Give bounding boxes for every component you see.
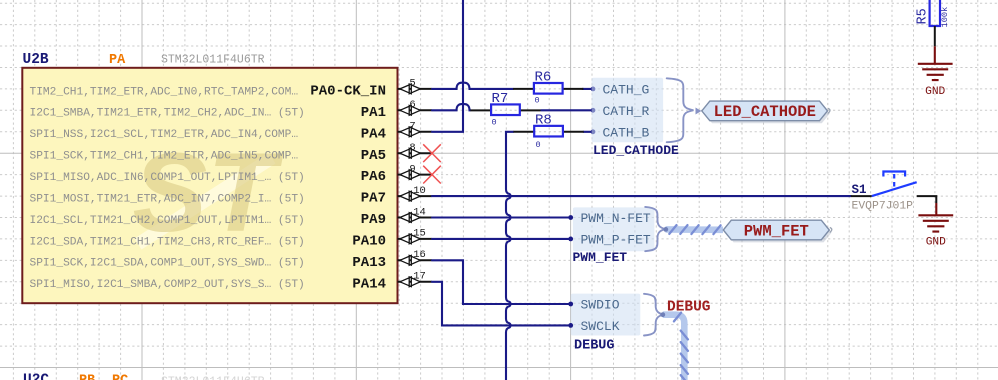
svg-text:10: 10 (413, 185, 426, 197)
svg-text:PA0-CK_IN: PA0-CK_IN (310, 84, 386, 100)
svg-text:R6: R6 (535, 70, 552, 86)
svg-text:6: 6 (409, 99, 415, 111)
resistor R7 (0 ohm) (470, 91, 540, 128)
junction dot (568, 237, 573, 242)
wire R8 net vertical to bottom (hops) (506, 132, 513, 380)
pin 9 (PA6) (30, 163, 433, 185)
svg-text:15: 15 (413, 228, 426, 240)
no-connect X on PA5 (423, 144, 441, 162)
wire R7 to CATH_R (541, 109, 592, 111)
svg-text:PA: PA (109, 53, 126, 68)
svg-text:PWM_FET: PWM_FET (744, 222, 809, 240)
net class area PWM_FET (573, 207, 655, 251)
svg-text:I2C1_SCL,TIM21_CH2,COMP1_OUT,L: I2C1_SCL,TIM21_CH2,COMP1_OUT,LPTIM1… (5T… (30, 215, 305, 227)
svg-text:SPI1_MOSI,TIM21_ETR,ADC_IN7,CO: SPI1_MOSI,TIM21_ETR,ADC_IN7,COMP2_I… (5T… (30, 194, 305, 206)
svg-text:PA14: PA14 (352, 276, 386, 292)
junction dot (568, 215, 573, 220)
svg-text:SPI1_SCK,I2C1_SDA,COMP1_OUT,SY: SPI1_SCK,I2C1_SDA,COMP1_OUT,SYS_SWD… (5T… (30, 258, 305, 270)
svg-text:SPI1_MISO,ADC_IN6,COMP1_OUT,LP: SPI1_MISO,ADC_IN6,COMP1_OUT,LPTIM1_… (5T… (30, 172, 305, 184)
junction dot (591, 87, 596, 92)
svg-text:R5: R5 (916, 8, 931, 24)
pin 5 (PA0-CK_IN) (30, 78, 433, 100)
svg-text:PA13: PA13 (352, 255, 386, 271)
svg-text:PA4: PA4 (361, 126, 386, 142)
svg-text:STM32L011F4U6TR: STM32L011F4U6TR (161, 375, 265, 380)
wire PA4 net vertical to top (432, 0, 463, 132)
pin 15 (PA10) (30, 228, 433, 250)
svg-text:LED_CATHODE: LED_CATHODE (714, 103, 816, 121)
svg-text:PA7: PA7 (361, 191, 386, 207)
svg-text:PA9: PA9 (361, 212, 386, 228)
svg-text:R7: R7 (492, 91, 509, 107)
svg-text:14: 14 (413, 206, 426, 218)
svg-text:U2C: U2C (23, 373, 49, 380)
svg-text:CATH_R: CATH_R (603, 104, 650, 119)
harness brace DEBUG (644, 294, 663, 336)
svg-text:GND: GND (925, 86, 945, 98)
svg-text:8: 8 (409, 142, 415, 154)
pin 7 (PA4) (30, 121, 433, 143)
svg-text:CATH_G: CATH_G (603, 83, 650, 98)
pin 17 (PA14) (30, 271, 433, 293)
wire PA1 to R7 with hop (432, 104, 470, 110)
pin 10 (PA7) (30, 185, 433, 207)
svg-text:PA5: PA5 (361, 148, 386, 164)
svg-text:SWCLK: SWCLK (581, 319, 620, 334)
port PWM_FET (723, 220, 832, 242)
svg-text:16: 16 (413, 249, 426, 261)
svg-text:DEBUG: DEBUG (574, 339, 615, 354)
port LED_CATHODE (702, 101, 830, 123)
svg-text:7: 7 (409, 121, 415, 133)
wire R8 to CATH_B (583, 131, 591, 133)
svg-text:PA10: PA10 (352, 234, 386, 250)
harness brace LED_CATHODE (667, 78, 694, 142)
svg-text:PWM_P-FET: PWM_P-FET (581, 233, 651, 248)
wire R6 to CATH_G (582, 88, 591, 90)
svg-text:GND: GND (926, 237, 946, 249)
resistor R5 (100k) (916, 0, 950, 46)
no-connect X on PA6 (423, 166, 441, 184)
switch S1 pins (851, 196, 936, 203)
svg-text:PA6: PA6 (361, 169, 386, 185)
svg-text:100k: 100k (940, 7, 950, 28)
ground GND (under R5) (934, 46, 936, 63)
junction dot (591, 108, 596, 113)
IC U2B (STM32L011F4U6TR) body (22, 68, 397, 303)
svg-text:9: 9 (409, 163, 415, 175)
svg-text:PA1: PA1 (361, 105, 386, 121)
resistor R6 (0 ohm) (513, 70, 583, 106)
net class area DEBUG (571, 294, 641, 336)
svg-text:0: 0 (535, 96, 540, 106)
svg-text:PB: PB (79, 374, 95, 380)
svg-text:PWM_N-FET: PWM_N-FET (581, 211, 651, 226)
ground GND (under S1) (935, 203, 937, 215)
pin 14 (PA9) (30, 206, 433, 228)
harness bus PWM_FET (663, 225, 723, 234)
svg-text:SPI1_MISO,I2C1_SMBA,COMP2_OUT,: SPI1_MISO,I2C1_SMBA,COMP2_OUT,SYS_S… (5T… (30, 279, 305, 291)
svg-text:PC: PC (112, 374, 128, 380)
svg-text:0: 0 (536, 140, 541, 150)
wire PA14 to SWCLK (432, 282, 571, 326)
svg-text:R8: R8 (535, 112, 552, 128)
svg-text:STM32L011F4U6TR: STM32L011F4U6TR (161, 54, 265, 67)
junction dot (591, 129, 596, 134)
pin 16 (PA13) (30, 249, 433, 271)
svg-text:5: 5 (409, 78, 415, 90)
svg-text:I2C1_SDA,TIM21_CH1,TIM2_CH3,RT: I2C1_SDA,TIM21_CH1,TIM2_CH3,RTC_REF… (5T… (30, 236, 305, 248)
svg-text:I2C1_SMBA,TIM21_ETR,TIM2_CH2,A: I2C1_SMBA,TIM21_ETR,TIM2_CH2,ADC_IN… (5T… (30, 108, 305, 120)
pin 6 (PA1) (30, 99, 433, 121)
svg-text:DEBUG: DEBUG (667, 299, 711, 315)
wire PA9 to PWM_N-FET (432, 216, 571, 218)
switch S1 (EVQP7J01P pushbutton) (872, 172, 917, 197)
svg-text:LED_CATHODE: LED_CATHODE (593, 143, 679, 158)
harness brace PWM_FET (645, 207, 665, 251)
wire PA7 to S1 (432, 195, 851, 197)
resistor R8 (0 ohm) (513, 112, 583, 150)
wire PA10 to PWM_P-FET (432, 238, 571, 240)
wire PA13 to SWDIO (432, 260, 571, 304)
svg-text:U2B: U2B (23, 52, 49, 68)
junction dot (568, 323, 573, 328)
svg-text:S1: S1 (852, 183, 867, 197)
svg-text:SPI1_NSS,I2C1_SCL,TIM2_ETR,ADC: SPI1_NSS,I2C1_SCL,TIM2_ETR,ADC_IN4,COMP… (30, 129, 299, 141)
svg-text:CATH_B: CATH_B (603, 125, 650, 140)
svg-text:SWDIO: SWDIO (581, 298, 620, 313)
svg-text:TIM2_CH1,TIM2_ETR,ADC_IN0,RTC_: TIM2_CH1,TIM2_ETR,ADC_IN0,RTC_TAMP2,COM… (30, 86, 299, 98)
svg-text:PWM_FET: PWM_FET (573, 250, 628, 265)
svg-text:EVQP7J01P: EVQP7J01P (852, 201, 914, 213)
svg-text:17: 17 (413, 271, 426, 283)
svg-text:SPI1_SCK,TIM2_CH1,TIM2_ETR,ADC: SPI1_SCK,TIM2_CH1,TIM2_ETR,ADC_IN5,COMP… (30, 151, 299, 163)
harness bus DEBUG (660, 312, 688, 380)
harness entry arrow (696, 108, 702, 115)
svg-text:0: 0 (492, 118, 497, 128)
net class area LED_CATHODE (592, 78, 664, 142)
pin 8 (PA5) (30, 142, 433, 164)
wire PA0 to R6 with hop (432, 83, 513, 89)
junction dot (568, 302, 573, 307)
